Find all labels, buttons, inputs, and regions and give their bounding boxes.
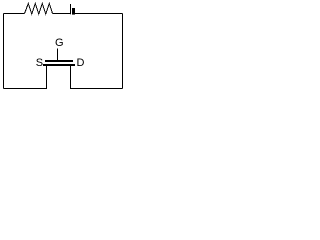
svg-text:G: G (55, 37, 64, 49)
wire resistor to battery (53, 13, 71, 15)
svg-text:D: D (77, 57, 85, 69)
wire bottom-right (right corner to drain lead) (70, 88, 123, 90)
resistor R1 (25, 4, 53, 15)
battery B1 negative plate (short thick) (72, 8, 75, 15)
transistor Q1 drain lead wire (70, 66, 72, 89)
svg-text:S: S (36, 57, 43, 69)
wire right side (122, 14, 124, 89)
wire left side (3, 14, 5, 89)
battery B1 positive plate (long thin) (70, 4, 72, 14)
wire bottom-left (source lead to left corner) (4, 88, 48, 90)
wire battery to top-right corner (75, 13, 123, 15)
transistor Q1 gate plate (top bar) (45, 60, 73, 62)
transistor Q1 channel plate (bottom bar) (43, 64, 75, 66)
wire top-left (left corner to resistor) (4, 13, 25, 15)
transistor Q1 source lead wire (46, 66, 48, 89)
transistor Q1 gate stub wire (57, 49, 59, 61)
